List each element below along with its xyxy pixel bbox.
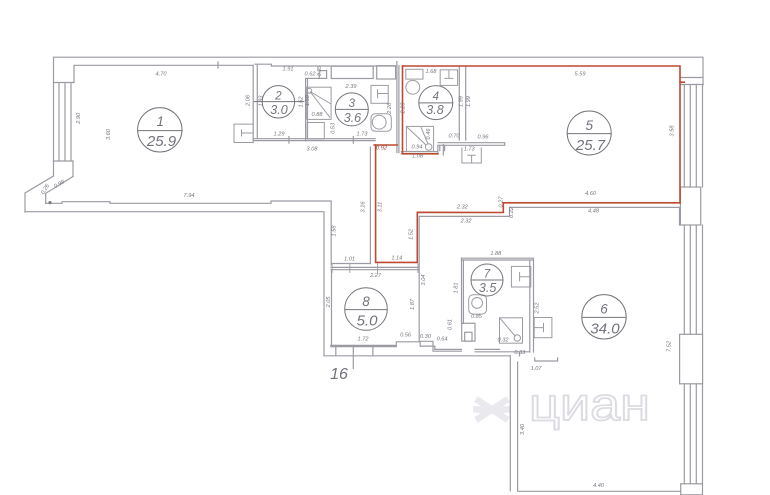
room8 circle <box>345 288 388 331</box>
room1 circle bar <box>137 130 182 132</box>
fixture basin4 symbol <box>444 70 453 79</box>
svg-text:2.27: 2.27 <box>369 273 382 279</box>
wall room3 right <box>397 62 399 153</box>
fixture basin4 <box>440 70 457 86</box>
svg-text:0.62: 0.62 <box>305 72 317 78</box>
svg-text:1.58: 1.58 <box>332 225 338 237</box>
fixture kitchen6 symbol <box>534 323 543 332</box>
svg-text:1.81: 1.81 <box>454 283 460 294</box>
svg-text:7.94: 7.94 <box>184 193 195 199</box>
wall corridor left pair <box>369 147 371 264</box>
svg-text:0.92: 0.92 <box>376 146 388 152</box>
fixture basin7 <box>511 266 530 287</box>
fixture shower3 lines <box>310 92 331 118</box>
svg-text:25.7: 25.7 <box>575 137 606 154</box>
fixture shower7 drain <box>514 335 520 341</box>
svg-text:3.60: 3.60 <box>106 128 112 140</box>
svg-text:4.60: 4.60 <box>585 191 597 197</box>
wall room2 bottom <box>253 139 305 141</box>
svg-text:3.8: 3.8 <box>426 103 443 117</box>
svg-text:3: 3 <box>349 98 356 110</box>
room6 circle bar <box>582 316 627 318</box>
cabinet room3 b <box>377 66 396 79</box>
svg-text:1.01: 1.01 <box>344 257 355 263</box>
watermark logo <box>473 399 511 420</box>
fixture kitchen6 sink <box>534 318 552 338</box>
tick16 b <box>372 345 374 355</box>
svg-text:1.50: 1.50 <box>305 94 311 106</box>
svg-text:2.32: 2.32 <box>456 204 469 210</box>
room3 circle bar <box>335 108 368 110</box>
window left cap top <box>54 82 75 84</box>
room2 circle <box>262 86 294 118</box>
svg-text:1.73: 1.73 <box>464 147 476 153</box>
wall steps right of room8 <box>396 342 461 350</box>
window right block3 corner <box>681 484 703 495</box>
fixture shower4 drain <box>425 144 432 151</box>
wall room8 top <box>331 267 418 269</box>
svg-text:1.87: 1.87 <box>410 298 416 310</box>
svg-text:5: 5 <box>585 118 593 133</box>
svg-text:5.0: 5.0 <box>357 313 379 330</box>
svg-text:1.91: 1.91 <box>283 67 294 73</box>
window right block1 <box>680 187 700 225</box>
red wall room4 left <box>403 66 438 154</box>
svg-text:25.9: 25.9 <box>146 133 177 150</box>
wall stub right of shower4 <box>440 145 445 150</box>
svg-text:1.08: 1.08 <box>412 154 424 160</box>
window right cap1 <box>681 84 703 86</box>
fixture hall sink symbol <box>467 155 475 163</box>
window right1 lines <box>684 85 702 188</box>
room5 circle bar <box>567 133 612 135</box>
svg-text:1.99: 1.99 <box>459 96 465 107</box>
svg-text:2.39: 2.39 <box>345 84 357 90</box>
svg-text:0.32: 0.32 <box>498 338 510 344</box>
wall room1 right <box>253 64 257 142</box>
bath7 right wall <box>530 258 534 352</box>
svg-text:1.68: 1.68 <box>426 69 438 75</box>
room8 circle bar <box>345 309 388 311</box>
wall outer top <box>54 57 704 161</box>
svg-text:1.07: 1.07 <box>531 366 543 372</box>
fixture shower4 square <box>406 126 433 151</box>
svg-text:1.29: 1.29 <box>274 132 285 138</box>
svg-text:4.40: 4.40 <box>593 483 605 489</box>
svg-text:0.35: 0.35 <box>317 66 323 76</box>
wall outer bottom corridor <box>25 212 324 356</box>
wall room6 top gray <box>508 207 680 225</box>
svg-text:3.5: 3.5 <box>479 281 496 295</box>
tick kitchen <box>442 145 444 156</box>
fixture toilet4 tank <box>406 69 423 79</box>
duct room3 top-left <box>319 71 326 79</box>
svg-text:0.26: 0.26 <box>40 183 51 196</box>
svg-text:16: 16 <box>330 366 348 383</box>
svg-text:0.85: 0.85 <box>471 314 483 320</box>
tick room2 door <box>288 137 290 144</box>
room7 circle bar <box>471 279 503 281</box>
svg-text:0.53: 0.53 <box>331 122 337 134</box>
bath7 top wall <box>462 258 533 260</box>
wall right block top <box>681 77 703 79</box>
fixture basin7 symbol <box>520 272 531 281</box>
svg-text:2.05: 2.05 <box>326 296 332 309</box>
svg-text:3.04: 3.04 <box>421 275 427 286</box>
tick16 long <box>352 345 354 368</box>
wall inner top room1 <box>74 64 397 82</box>
svg-text:2.52: 2.52 <box>534 302 540 315</box>
svg-text:0.96: 0.96 <box>478 134 490 140</box>
window right2 lines <box>684 225 702 334</box>
svg-text:4.70: 4.70 <box>156 72 168 78</box>
svg-text:1.73: 1.73 <box>357 132 369 138</box>
svg-text:2.28: 2.28 <box>387 102 393 115</box>
step below bath <box>535 358 558 361</box>
svg-text:0.88: 0.88 <box>312 112 324 118</box>
room5 circle <box>567 111 611 155</box>
svg-text:0.94: 0.94 <box>412 145 423 151</box>
svg-text:4: 4 <box>433 91 439 103</box>
fixture basin3 symbol <box>378 89 389 98</box>
stub room6 step <box>519 352 521 356</box>
wall left below window <box>54 161 74 177</box>
room4 circle bar <box>419 102 453 104</box>
svg-text:0.70: 0.70 <box>449 134 461 140</box>
fixture toilet7 bowl <box>472 298 483 309</box>
fixture room1 sink symbol <box>242 130 254 137</box>
cupboard room3 <box>307 123 324 140</box>
tick room3 door <box>352 137 354 144</box>
fixture toilet3 bowl <box>372 115 386 129</box>
wall under shower4 <box>401 145 438 153</box>
window left inner <box>70 83 72 161</box>
wall outer bottom2 <box>324 355 510 357</box>
wall room4-5 <box>459 66 465 140</box>
svg-text:3.58: 3.58 <box>670 125 676 137</box>
wall room8 left inner <box>331 270 333 346</box>
svg-text:1.52: 1.52 <box>408 228 414 240</box>
svg-text:0.56: 0.56 <box>400 333 412 339</box>
room2 circle bar <box>254 101 305 103</box>
fixture toilet7 tank <box>469 295 487 314</box>
svg-text:5.59: 5.59 <box>575 71 586 77</box>
cabinet room3 a <box>331 66 373 78</box>
shaft pocket bottom gray <box>332 263 370 265</box>
room6 circle <box>582 295 626 339</box>
room1 circle <box>138 108 182 152</box>
svg-text:1.88: 1.88 <box>490 251 502 257</box>
svg-text:0.46: 0.46 <box>426 128 432 140</box>
wall room6 top-left gray <box>420 215 508 217</box>
bath7 cabinet <box>462 323 475 341</box>
fixture shower3 square <box>307 87 331 119</box>
svg-text:1.99: 1.99 <box>466 96 472 107</box>
room3 circle <box>335 93 368 126</box>
fixture hall sink box <box>462 148 481 164</box>
niche bottom room2 <box>306 77 319 79</box>
fixture shower4 diag <box>407 127 428 145</box>
wall room8 bottom <box>331 345 397 346</box>
fixture toilet4 bowl <box>406 80 420 94</box>
svg-text:0.30: 0.30 <box>420 334 432 340</box>
window left pane2 <box>64 83 66 161</box>
wall room1 bottom inner <box>46 201 332 265</box>
fixture basin3 <box>371 85 388 103</box>
svg-text:7: 7 <box>484 269 491 281</box>
fixture shower7 diag <box>500 319 515 337</box>
window left pane1 <box>58 83 60 161</box>
red wall top rooms45 <box>403 66 681 203</box>
wall room2-3 <box>306 79 308 141</box>
bath7 left wall <box>462 258 464 323</box>
svg-text:2.90: 2.90 <box>76 112 82 125</box>
svg-text:34.0: 34.0 <box>590 320 620 337</box>
svg-text:1: 1 <box>156 114 164 129</box>
dim dot corner <box>48 201 51 204</box>
tick top wall room1 <box>217 62 219 68</box>
svg-text:3.40: 3.40 <box>520 423 526 435</box>
svg-text:3.08: 3.08 <box>307 146 319 152</box>
svg-text:3.11: 3.11 <box>377 202 383 212</box>
window left cap bottom <box>54 160 74 162</box>
window right block2 <box>680 334 703 384</box>
window right3 lines <box>684 384 702 484</box>
wall diagonal outer <box>25 176 54 212</box>
svg-text:2: 2 <box>274 91 282 103</box>
svg-text:2.06: 2.06 <box>246 94 252 107</box>
svg-text:3.6: 3.6 <box>344 111 361 125</box>
room7 circle <box>471 264 503 296</box>
ticks room8 top <box>332 264 418 273</box>
fixture room1 sink box <box>234 124 253 142</box>
wall corridor right gray <box>419 216 461 351</box>
svg-text:2.23: 2.23 <box>401 102 407 115</box>
fixture shower7 <box>500 318 523 343</box>
red jog window right <box>680 81 684 83</box>
wall room3 bottom <box>306 139 376 141</box>
tick16 a <box>335 345 337 355</box>
wall kitchen ledge <box>438 143 505 146</box>
bath7 cabinet inner <box>465 332 472 341</box>
svg-text:1.62: 1.62 <box>298 96 304 108</box>
wall room6 bottom <box>518 490 681 492</box>
fixture toilet3 <box>371 114 391 131</box>
svg-text:3.16: 3.16 <box>361 201 367 213</box>
red wall room5 bottom right <box>374 145 680 263</box>
svg-text:3.0: 3.0 <box>270 103 287 117</box>
svg-text:0.22: 0.22 <box>509 206 515 218</box>
svg-text:0.64: 0.64 <box>437 336 448 342</box>
bath7 bottom edge <box>475 349 530 351</box>
svg-text:1.72: 1.72 <box>358 337 370 343</box>
svg-text:1.14: 1.14 <box>391 256 402 262</box>
svg-text:6: 6 <box>600 302 608 317</box>
svg-text:2.32: 2.32 <box>460 218 473 224</box>
svg-text:4.48: 4.48 <box>588 208 600 214</box>
svg-text:0.27: 0.27 <box>498 196 504 208</box>
wall diagonal inner <box>46 177 73 204</box>
svg-text:циан: циан <box>529 378 650 430</box>
svg-text:8: 8 <box>362 294 370 309</box>
fixture shower3 knob <box>307 88 312 93</box>
entrance door threshold <box>62 202 110 204</box>
svg-text:0.61: 0.61 <box>447 319 453 330</box>
svg-text:7.52: 7.52 <box>667 340 673 352</box>
svg-text:0.99: 0.99 <box>53 179 65 190</box>
svg-text:1.93: 1.93 <box>259 95 265 107</box>
room4 circle <box>419 86 453 120</box>
svg-text:0.33: 0.33 <box>514 350 526 356</box>
wall room6 left <box>510 356 517 491</box>
